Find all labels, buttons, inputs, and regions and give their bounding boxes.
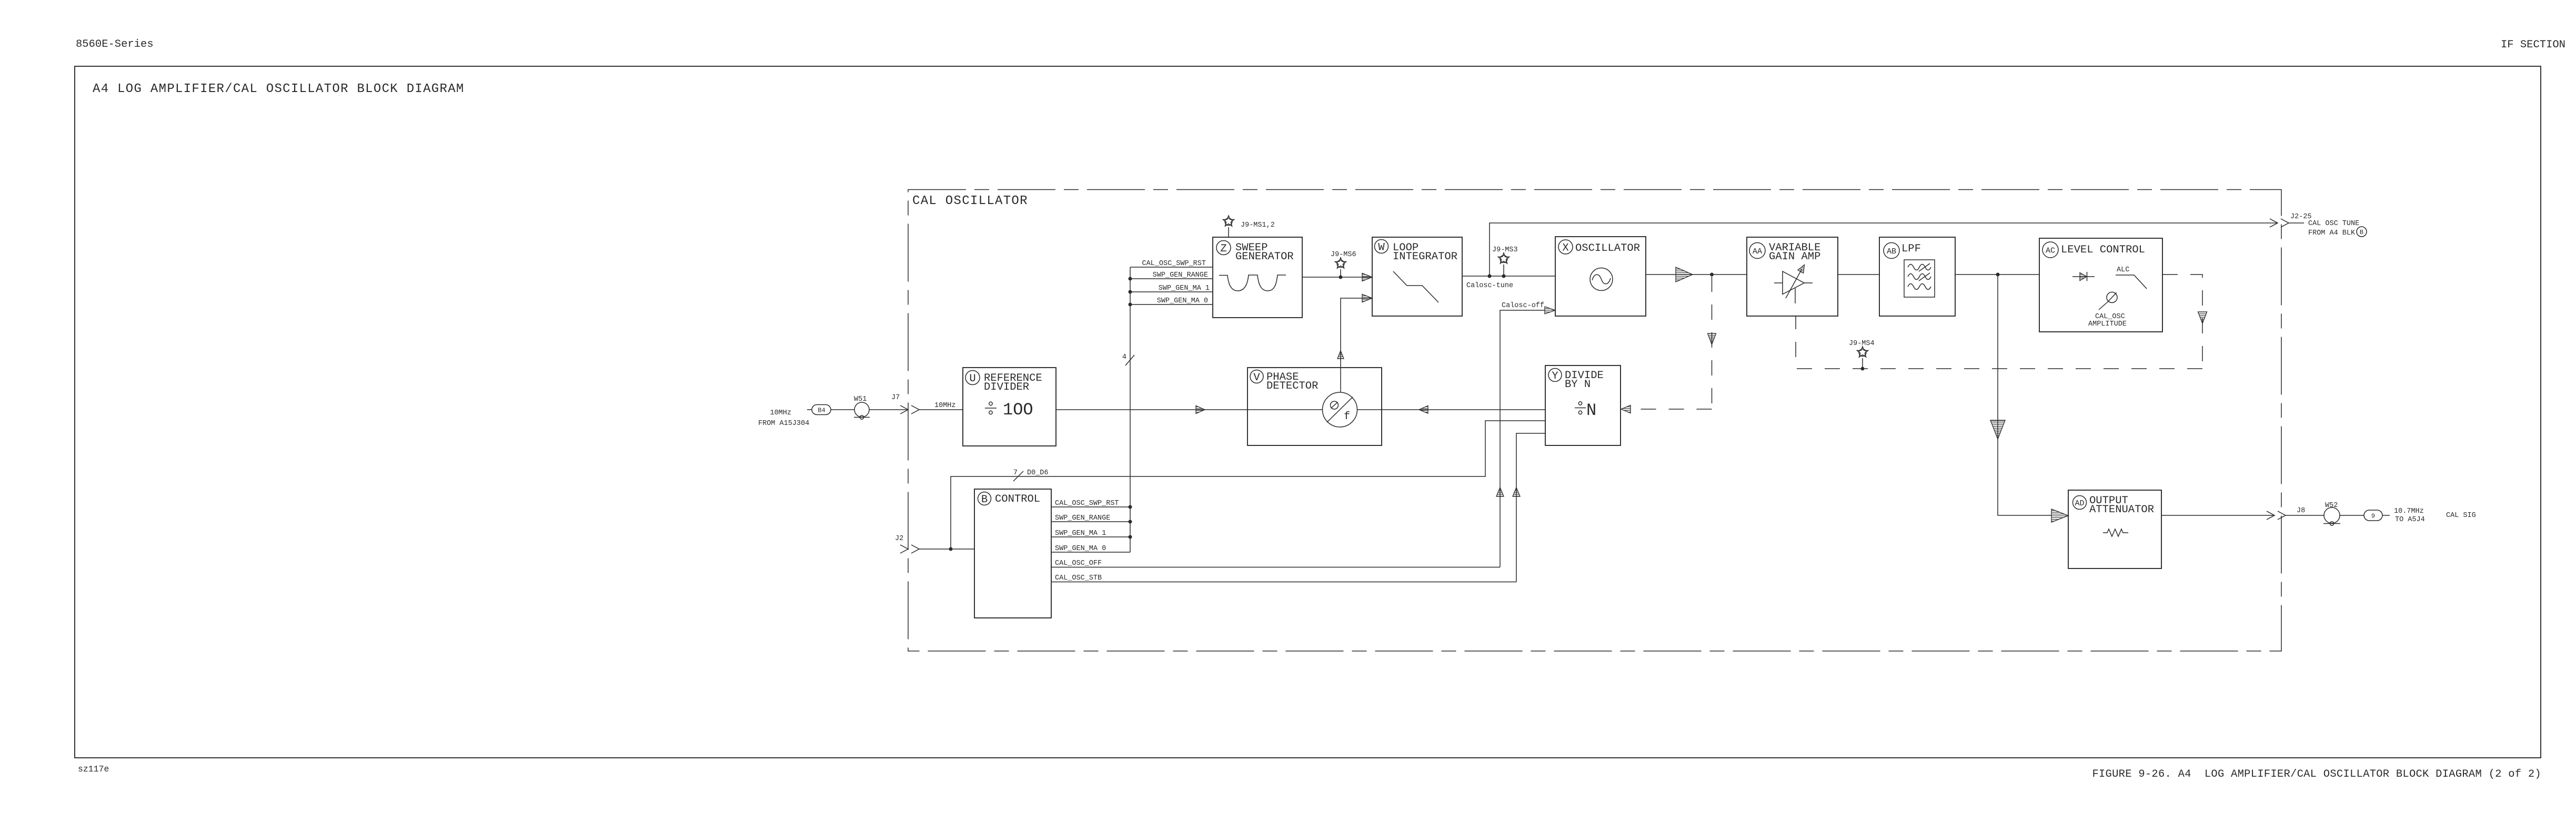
variable gain amplifier symbol bbox=[1774, 265, 1813, 304]
connector J2-25 chevrons bbox=[2270, 219, 2304, 227]
svg-text:sz117e: sz117e bbox=[78, 764, 109, 774]
svg-text:B: B bbox=[2360, 229, 2363, 236]
svg-text:CAL_OSC: CAL_OSC bbox=[2095, 313, 2125, 321]
svg-text:B: B bbox=[981, 494, 988, 506]
svg-text:V: V bbox=[1253, 372, 1260, 384]
svg-text:1OO: 1OO bbox=[1003, 400, 1033, 420]
block X OSCILLATOR bbox=[1555, 237, 1646, 316]
svg-text:J9-MS3: J9-MS3 bbox=[1492, 246, 1518, 254]
svg-text:J9-MS6: J9-MS6 bbox=[1331, 251, 1356, 259]
junction J2 line bbox=[949, 547, 953, 551]
dashed ALC loop level control to variable gain amp bbox=[1796, 275, 2202, 369]
block AB LPF bbox=[1879, 237, 1955, 316]
svg-text:D0_D6: D0_D6 bbox=[1027, 469, 1049, 477]
phase/frequency detector symbol bbox=[1323, 392, 1357, 427]
svg-text:SWP_GEN_RANGE: SWP_GEN_RANGE bbox=[1153, 271, 1208, 279]
svg-text:A4 LOG AMPLIFIER/CAL OSCILLATO: A4 LOG AMPLIFIER/CAL OSCILLATOR BLOCK DI… bbox=[93, 82, 465, 96]
bus width slash 7 D0_D6 bbox=[1013, 469, 1049, 481]
svg-text:GAIN AMP: GAIN AMP bbox=[1769, 251, 1820, 263]
wire SWP_GEN_RANGE control output bbox=[1051, 514, 1132, 524]
svg-text:IF SECTION: IF SECTION bbox=[2501, 39, 2565, 51]
test point J9-MS3 bbox=[1492, 246, 1518, 278]
svg-text:U: U bbox=[969, 373, 975, 385]
block Y DIVIDE BY N bbox=[1545, 365, 1621, 445]
svg-text:DIVIDER: DIVIDER bbox=[984, 381, 1029, 393]
svg-text:CAL OSC TUNE: CAL OSC TUNE bbox=[2308, 220, 2359, 228]
wire B4 to W51 bbox=[831, 409, 854, 410]
wire CAL_OSC_SWP_RST control output bbox=[1051, 500, 1132, 509]
svg-text:J7: J7 bbox=[891, 394, 900, 402]
junction LPF output bbox=[1996, 273, 2000, 277]
connector oval 9 bbox=[2364, 510, 2382, 521]
divide-by-100 symbol bbox=[985, 400, 1033, 420]
CAL OSCILLATOR dashed boundary box bbox=[908, 190, 2281, 652]
svg-text:FROM A4 BLK: FROM A4 BLK bbox=[2308, 229, 2356, 237]
page border frame bbox=[75, 66, 2541, 758]
svg-text:TO A5J4: TO A5J4 bbox=[2395, 516, 2425, 524]
svg-text:FROM A15J304: FROM A15J304 bbox=[758, 420, 809, 428]
svg-text:CAL_OSC_OFF: CAL_OSC_OFF bbox=[1055, 560, 1102, 567]
svg-text:ALC: ALC bbox=[2117, 266, 2129, 274]
wire down to output attenuator bbox=[1998, 275, 2051, 515]
svg-text:4: 4 bbox=[1122, 353, 1126, 361]
block W LOOP INTEGRATOR bbox=[1372, 237, 1462, 316]
gain control dashed stub under variable gain amp bbox=[0, 0, 1, 1]
svg-text:J9-MS1,2: J9-MS1,2 bbox=[1241, 221, 1275, 229]
wire J2 to control bbox=[919, 548, 974, 550]
ALC detector diode symbol bbox=[2072, 272, 2095, 281]
wire sweep generator to loop integrator bbox=[1302, 277, 1371, 278]
wire SWP_GEN_MA 1 control output bbox=[1051, 530, 1132, 539]
svg-text:Y: Y bbox=[1552, 370, 1558, 382]
svg-text:J9-MS4: J9-MS4 bbox=[1849, 340, 1875, 348]
svg-text:DETECTOR: DETECTOR bbox=[1266, 380, 1318, 392]
wire CAL_OSC_STB riser into divide by N bbox=[1516, 433, 1545, 582]
wire sweep control bus riser bbox=[1130, 267, 1131, 552]
wire oscillator output to variable gain amp bbox=[1646, 274, 1747, 275]
svg-text:J8: J8 bbox=[2297, 507, 2305, 515]
arrow up on CAL_OSC_STB riser bbox=[1513, 487, 1520, 496]
svg-text:LEVEL CONTROL: LEVEL CONTROL bbox=[2061, 244, 2145, 256]
svg-text:CAL SIG: CAL SIG bbox=[2446, 512, 2476, 520]
wire input stub to B4 bbox=[807, 409, 812, 410]
arrow down big on attenuator feed bbox=[1990, 420, 2005, 439]
low pass filter symbol bbox=[1904, 260, 1935, 297]
svg-text:9: 9 bbox=[2371, 513, 2375, 520]
svg-text:SWP_GEN_MA 0: SWP_GEN_MA 0 bbox=[1157, 297, 1208, 305]
svg-text:J2: J2 bbox=[895, 535, 903, 543]
wire phase detector output up to loop integrator bbox=[1341, 298, 1371, 392]
sweep waveform symbol bbox=[1219, 275, 1286, 291]
wire CAL_OSC_STB control output bbox=[1051, 574, 1516, 582]
svg-text:CAL_OSC_SWP_RST: CAL_OSC_SWP_RST bbox=[1055, 500, 1119, 507]
svg-text:GENERATOR: GENERATOR bbox=[1235, 251, 1294, 263]
svg-text:10MHz: 10MHz bbox=[770, 409, 791, 417]
svg-text:LPF: LPF bbox=[1901, 243, 1921, 255]
svg-text:7: 7 bbox=[1013, 469, 1018, 477]
arrow down on dashed sample bbox=[1708, 333, 1716, 344]
arrow up on Calosc-off bbox=[1496, 487, 1504, 496]
svg-text:10MHz: 10MHz bbox=[934, 402, 956, 410]
svg-text:AB: AB bbox=[1887, 247, 1896, 256]
svg-text:f: f bbox=[1344, 411, 1350, 423]
wire J7 to reference divider, 10MHz bbox=[919, 402, 963, 410]
node 10.7MHz TO A5J4 labels bbox=[2394, 507, 2425, 524]
svg-text:W: W bbox=[1378, 242, 1385, 254]
svg-text:BY N: BY N bbox=[1565, 379, 1591, 391]
junction oscillator output bbox=[1710, 273, 1714, 277]
wire cal osc tune to J2-25 bbox=[1490, 223, 2277, 276]
wire CAL_OSC_SWP_RST into sweep generator bbox=[1130, 260, 1213, 268]
bus width slash 4 bbox=[1122, 353, 1134, 365]
arrow into phase detector bbox=[1196, 406, 1205, 414]
arrow into divide by N right input bbox=[1621, 405, 1631, 413]
connector oval B4 bbox=[812, 405, 831, 415]
arrow divide-by-N output (left) bbox=[1419, 406, 1428, 414]
svg-text:FIGURE 9-26. A4 LOG AMPLIFIER: FIGURE 9-26. A4 LOG AMPLIFIER/CAL OSCILL… bbox=[2092, 768, 2541, 780]
wire SWP_GEN_MA 0 into sweep generator bbox=[1129, 297, 1213, 307]
svg-text:AC: AC bbox=[2046, 247, 2055, 256]
svg-text:SWP_GEN_RANGE: SWP_GEN_RANGE bbox=[1055, 514, 1110, 522]
ALC switch symbol bbox=[2116, 266, 2147, 289]
wire D0_D6 bus control to divide by N bbox=[951, 421, 1545, 549]
junction to cal osc tune out bbox=[1488, 275, 1492, 278]
arrow into loop integrator upper input bbox=[1362, 273, 1372, 281]
arrow up on phase det output bbox=[1337, 351, 1344, 359]
svg-text:ATTENUATOR: ATTENUATOR bbox=[2089, 504, 2154, 516]
wire out of connector 9 bbox=[2382, 515, 2390, 516]
svg-text:SWP_GEN_MA 0: SWP_GEN_MA 0 bbox=[1055, 545, 1106, 553]
test point J9-MS1,2 bbox=[1223, 216, 1275, 237]
CAL_OSC AMPLITUDE pot symbol bbox=[2088, 292, 2127, 329]
wire variable gain amp to LPF bbox=[1838, 274, 1879, 275]
svg-text:8560E-Series: 8560E-Series bbox=[76, 38, 154, 50]
svg-text:CAL OSCILLATOR: CAL OSCILLATOR bbox=[912, 194, 1028, 208]
svg-text:Z: Z bbox=[1220, 243, 1226, 255]
wire SWP_GEN_RANGE into sweep generator bbox=[1129, 271, 1213, 281]
svg-text:SWP_GEN_MA 1: SWP_GEN_MA 1 bbox=[1055, 530, 1106, 537]
block B CONTROL bbox=[974, 489, 1051, 618]
wire LPF to level control bbox=[1955, 274, 2039, 275]
node J2-25 labels bbox=[2290, 213, 2367, 237]
connector J2 chevrons bbox=[895, 535, 919, 553]
block AD OUTPUT ATTENUATOR bbox=[2068, 490, 2161, 568]
svg-text:AMPLITUDE: AMPLITUDE bbox=[2088, 320, 2127, 328]
attenuator resistor symbol bbox=[2103, 529, 2128, 536]
wire W52 to connector 9 bbox=[2340, 515, 2364, 516]
svg-text:CAL_OSC_STB: CAL_OSC_STB bbox=[1055, 574, 1102, 582]
svg-text:10.7MHz: 10.7MHz bbox=[2394, 507, 2424, 515]
block AA VARIABLE GAIN AMP bbox=[1747, 237, 1838, 316]
wire reference divider to phase detector bbox=[1056, 409, 1322, 410]
arrow into loop integrator lower input bbox=[1362, 294, 1372, 302]
block AC LEVEL CONTROL bbox=[2039, 238, 2162, 332]
arrow into output attenuator bbox=[2051, 509, 2068, 522]
wire Calosc-off into oscillator bbox=[1500, 302, 1555, 567]
test point J9-MS4 bbox=[1849, 340, 1875, 371]
arrow oscillator output bbox=[1676, 267, 1693, 282]
oscillator sine symbol bbox=[1590, 268, 1613, 291]
svg-text:X: X bbox=[1562, 242, 1568, 255]
svg-text:B4: B4 bbox=[818, 407, 825, 414]
wire phase detector to divide by N bbox=[1357, 409, 1545, 410]
svg-text:N: N bbox=[1586, 401, 1596, 420]
wire output attenuator to J8 bbox=[2161, 515, 2273, 516]
cable W51 bbox=[854, 395, 870, 419]
block U REFERENCE DIVIDER bbox=[963, 368, 1056, 446]
wire SWP_GEN_MA 1 into sweep generator bbox=[1129, 285, 1213, 294]
cable W52 bbox=[2323, 502, 2340, 525]
integrator response symbol bbox=[1393, 271, 1438, 302]
connector J7 chevrons bbox=[891, 394, 919, 414]
svg-text:AD: AD bbox=[2075, 499, 2084, 508]
svg-text:AA: AA bbox=[1753, 247, 1762, 256]
svg-text:Calosc-tune: Calosc-tune bbox=[1466, 282, 1513, 290]
svg-text:INTEGRATOR: INTEGRATOR bbox=[1393, 251, 1457, 263]
divide-by-N symbol bbox=[1575, 401, 1596, 420]
wire loop integrator to oscillator, Calosc-tune bbox=[1462, 276, 1555, 290]
wire W51 to J7 bbox=[869, 409, 907, 410]
svg-text:OSCILLATOR: OSCILLATOR bbox=[1575, 242, 1640, 255]
block Z SWEEP GENERATOR bbox=[1213, 237, 1302, 318]
connector J8 chevrons bbox=[2267, 507, 2324, 520]
svg-text:CAL_OSC_SWP_RST: CAL_OSC_SWP_RST bbox=[1142, 260, 1206, 268]
wire dashed oscillator sample down to divide by N bbox=[1631, 277, 1712, 409]
test point J9-MS6 bbox=[1331, 251, 1356, 279]
arrow down on ALC dashed line bbox=[2198, 312, 2207, 323]
svg-text:CONTROL: CONTROL bbox=[995, 493, 1040, 505]
wire SWP_GEN_MA 0 control output bbox=[1051, 545, 1130, 553]
svg-text:SWP_GEN_MA 1: SWP_GEN_MA 1 bbox=[1159, 285, 1210, 292]
svg-text:Calosc-off: Calosc-off bbox=[1502, 302, 1544, 310]
wire CAL_OSC_OFF control output bbox=[1051, 560, 1500, 567]
block V PHASE DETECTOR bbox=[1247, 368, 1382, 445]
